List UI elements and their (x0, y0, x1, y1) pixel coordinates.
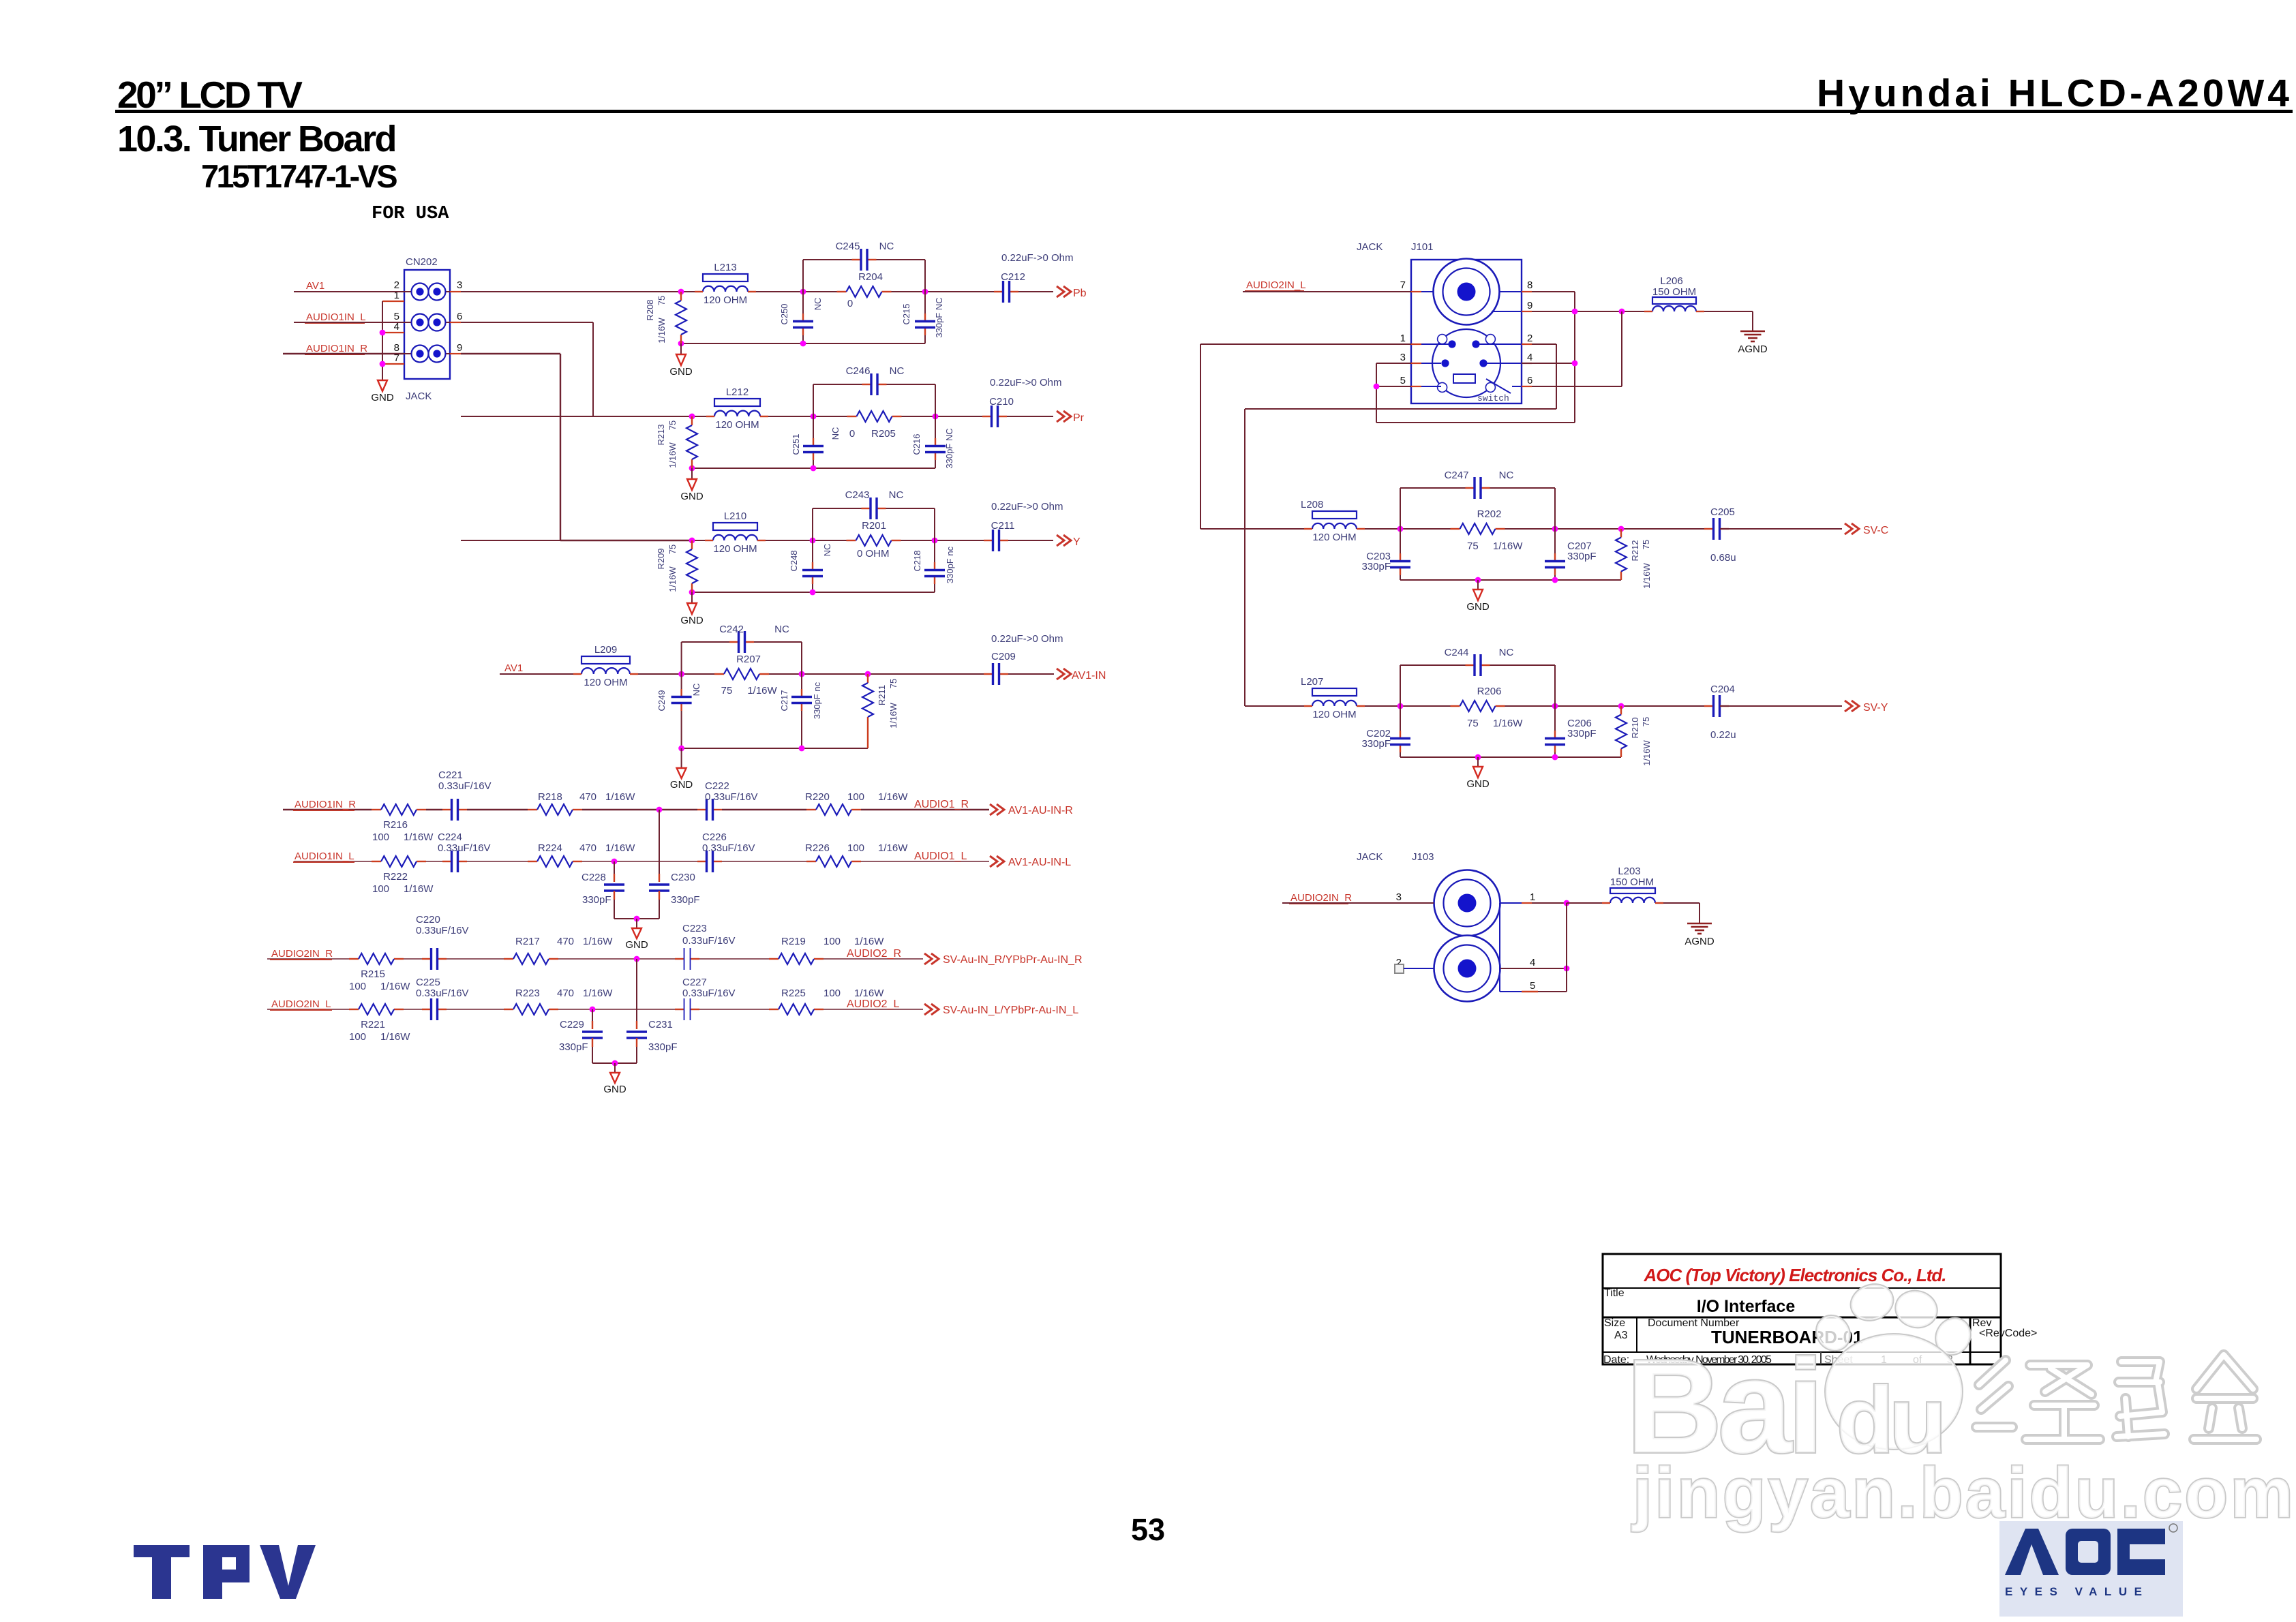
svg-text:C216: C216 (911, 433, 922, 455)
svg-text:1/16W: 1/16W (1642, 739, 1652, 765)
svg-text:NC: NC (1499, 647, 1514, 658)
svg-text:0.22uF->0 Ohm: 0.22uF->0 Ohm (991, 501, 1063, 512)
svg-text:GND: GND (371, 392, 394, 403)
svg-text:jingyan.baidu.com: jingyan.baidu.com (1631, 1454, 2296, 1533)
svg-text:9: 9 (457, 342, 462, 354)
svg-text:C225: C225 (416, 977, 440, 988)
svg-text:GND: GND (625, 939, 648, 951)
svg-text:330pF: 330pF (648, 1041, 678, 1053)
svg-text:7: 7 (1400, 279, 1406, 291)
svg-text:AUDIO1IN_L: AUDIO1IN_L (294, 851, 354, 862)
svg-text:EYES VALUE: EYES VALUE (2005, 1585, 2149, 1598)
svg-text:C248: C248 (789, 550, 799, 571)
svg-text:470: 470 (557, 936, 574, 947)
svg-text:C227: C227 (682, 977, 707, 988)
svg-text:1/16W: 1/16W (583, 988, 613, 999)
svg-text:NC: NC (1499, 470, 1514, 481)
svg-text:R223: R223 (515, 988, 540, 999)
svg-text:120 OHM: 120 OHM (704, 294, 747, 306)
svg-text:SV-Y: SV-Y (1863, 702, 1888, 714)
svg-text:100: 100 (824, 988, 841, 999)
svg-text:100: 100 (372, 883, 389, 895)
svg-text:R220: R220 (805, 791, 830, 803)
svg-text:1/16W: 1/16W (854, 988, 884, 999)
svg-text:330pF nc: 330pF nc (945, 546, 955, 583)
svg-text:AGND: AGND (1738, 343, 1768, 355)
svg-text:715T1747-1-VS: 715T1747-1-VS (201, 158, 397, 194)
svg-text:C229: C229 (560, 1019, 584, 1030)
svg-text:NC: NC (691, 684, 701, 697)
svg-text:3: 3 (1396, 891, 1402, 903)
svg-text:AGND: AGND (1685, 936, 1715, 947)
svg-text:C230: C230 (671, 872, 695, 883)
svg-text:C223: C223 (682, 923, 707, 934)
svg-text:L206: L206 (1660, 275, 1682, 287)
svg-text:120 OHM: 120 OHM (1312, 709, 1356, 720)
svg-text:75: 75 (656, 296, 667, 305)
svg-text:C209: C209 (991, 651, 1016, 662)
svg-text:R208: R208 (645, 299, 655, 320)
svg-text:NC: NC (879, 241, 894, 252)
svg-text:C224: C224 (438, 831, 462, 843)
svg-text:R204: R204 (858, 271, 883, 283)
svg-text:0.33uF/16V: 0.33uF/16V (705, 791, 758, 803)
svg-text:C211: C211 (991, 520, 1015, 532)
svg-text:100: 100 (824, 936, 841, 947)
svg-text:0.68u: 0.68u (1710, 552, 1736, 564)
svg-text:AV1-AU-IN-R: AV1-AU-IN-R (1008, 805, 1073, 816)
svg-text:470: 470 (579, 791, 596, 803)
svg-text:330pF: 330pF (559, 1041, 588, 1053)
svg-text:150 OHM: 150 OHM (1652, 286, 1696, 298)
svg-text:1/16W: 1/16W (747, 685, 777, 697)
svg-text:75: 75 (667, 545, 678, 554)
svg-text:470: 470 (579, 842, 596, 854)
svg-text:R202: R202 (1477, 508, 1502, 520)
svg-text:1/16W: 1/16W (404, 883, 434, 895)
svg-text:0.33uF/16V: 0.33uF/16V (416, 988, 469, 999)
svg-text:SV-Au-IN_R/YPbPr-Au-IN_R: SV-Au-IN_R/YPbPr-Au-IN_R (943, 954, 1083, 966)
svg-text:AUDIO2_L: AUDIO2_L (847, 998, 899, 1010)
svg-text:C231: C231 (648, 1019, 673, 1030)
svg-text:1/16W: 1/16W (1493, 540, 1523, 552)
svg-text:GND: GND (603, 1084, 626, 1095)
svg-text:75: 75 (1641, 717, 1651, 726)
svg-text:R207: R207 (736, 654, 761, 665)
svg-text:AV1-IN: AV1-IN (1072, 670, 1106, 682)
svg-text:AUDIO1IN_R: AUDIO1IN_R (294, 799, 356, 810)
svg-text:1/16W: 1/16W (380, 1031, 410, 1043)
svg-text:J101: J101 (1411, 241, 1434, 253)
svg-text:Pr: Pr (1073, 412, 1085, 424)
svg-text:C244: C244 (1445, 647, 1469, 658)
svg-text:Hyundai HLCD-A20W4: Hyundai HLCD-A20W4 (1817, 72, 2293, 115)
svg-text:330pF NC: 330pF NC (944, 428, 954, 468)
svg-text:J103: J103 (1412, 851, 1434, 863)
svg-text:1: 1 (1400, 333, 1406, 344)
svg-text:3: 3 (457, 279, 462, 291)
svg-text:NC: NC (890, 365, 905, 377)
svg-text:3: 3 (1400, 352, 1406, 363)
svg-text:330pF nc: 330pF nc (812, 682, 822, 719)
svg-text:1/16W: 1/16W (667, 566, 678, 592)
svg-text:C226: C226 (702, 831, 727, 843)
svg-text:R216: R216 (383, 819, 408, 831)
svg-text:2: 2 (1527, 333, 1532, 344)
svg-text:0.33uF/16V: 0.33uF/16V (682, 988, 736, 999)
svg-text:1/16W: 1/16W (1493, 718, 1523, 729)
svg-text:NC: NC (822, 544, 832, 557)
svg-text:120 OHM: 120 OHM (584, 677, 627, 688)
svg-text:GND: GND (1466, 778, 1490, 790)
svg-text:C247: C247 (1445, 470, 1469, 481)
svg-text:150 OHM: 150 OHM (1610, 876, 1654, 888)
svg-text:5: 5 (1530, 980, 1535, 992)
svg-text:0.22uF->0 Ohm: 0.22uF->0 Ohm (991, 633, 1063, 645)
svg-text:470: 470 (557, 988, 574, 999)
svg-text:R212: R212 (1630, 540, 1640, 561)
svg-text:switch: switch (1477, 393, 1509, 403)
svg-text:R225: R225 (781, 988, 806, 999)
svg-text:R226: R226 (805, 842, 830, 854)
svg-text:1/16W: 1/16W (854, 936, 884, 947)
svg-text:120 OHM: 120 OHM (713, 543, 757, 555)
svg-text:L203: L203 (1618, 866, 1640, 877)
svg-text:CN202: CN202 (406, 256, 438, 268)
svg-text:AUDIO2IN_R: AUDIO2IN_R (271, 948, 333, 960)
svg-text:L210: L210 (724, 510, 746, 522)
svg-text:1/16W: 1/16W (878, 791, 908, 803)
svg-text:1/16W: 1/16W (380, 981, 410, 992)
svg-text:Title: Title (1604, 1287, 1625, 1299)
svg-text:AOC (Top Victory) Electronics: AOC (Top Victory) Electronics Co., Ltd. (1644, 1265, 1946, 1285)
svg-text:1/16W: 1/16W (667, 442, 678, 468)
svg-text:AUDIO1_L: AUDIO1_L (914, 851, 967, 862)
svg-text:AUDIO1_R: AUDIO1_R (914, 799, 969, 810)
svg-text:L212: L212 (726, 386, 749, 398)
svg-text:1/16W: 1/16W (656, 317, 667, 343)
svg-text:0.33uF/16V: 0.33uF/16V (682, 935, 736, 947)
svg-text:330pF: 330pF (1361, 738, 1391, 750)
svg-text:1/16W: 1/16W (605, 842, 635, 854)
svg-text:C249: C249 (656, 690, 667, 711)
svg-text:120 OHM: 120 OHM (1312, 532, 1356, 543)
svg-text:C251: C251 (791, 433, 801, 455)
svg-text:<RevCode>: <RevCode> (1979, 1328, 2037, 1339)
svg-text:R219: R219 (781, 936, 806, 947)
svg-text:R224: R224 (538, 842, 562, 854)
svg-text:JACK: JACK (1357, 241, 1383, 253)
svg-text:75: 75 (667, 420, 678, 430)
svg-text:R218: R218 (538, 791, 562, 803)
svg-text:GND: GND (680, 491, 704, 502)
svg-text:100: 100 (372, 831, 389, 843)
svg-text:L207: L207 (1301, 676, 1323, 688)
svg-text:C242: C242 (719, 624, 744, 635)
svg-text:C210: C210 (989, 396, 1014, 408)
svg-text:0.33uF/16V: 0.33uF/16V (438, 780, 492, 792)
svg-text:SV-Au-IN_L/YPbPr-Au-IN_L: SV-Au-IN_L/YPbPr-Au-IN_L (943, 1005, 1078, 1016)
svg-text:1/16W: 1/16W (404, 831, 434, 843)
svg-text:R210: R210 (1630, 717, 1640, 738)
svg-text:C220: C220 (416, 914, 440, 925)
svg-text:1: 1 (1530, 891, 1535, 903)
svg-text:R213: R213 (656, 424, 666, 445)
svg-text:75: 75 (721, 685, 733, 697)
svg-text:1/16W: 1/16W (878, 842, 908, 854)
svg-text:5: 5 (1400, 375, 1406, 386)
svg-text:SV-C: SV-C (1863, 525, 1888, 536)
svg-text:C228: C228 (581, 872, 606, 883)
svg-text:JACK: JACK (406, 391, 432, 402)
svg-text:100: 100 (847, 791, 864, 803)
svg-text:C205: C205 (1710, 506, 1735, 518)
svg-text:0 OHM: 0 OHM (857, 548, 890, 560)
svg-text:0: 0 (849, 428, 855, 440)
svg-text:0.22uF->0 Ohm: 0.22uF->0 Ohm (990, 377, 1061, 388)
svg-text:330pF: 330pF (1567, 551, 1597, 562)
svg-text:Size: Size (1604, 1317, 1625, 1329)
svg-text:330pF: 330pF (1361, 561, 1391, 572)
svg-text:0.22uF->0 Ohm: 0.22uF->0 Ohm (1001, 252, 1073, 264)
svg-text:AV1: AV1 (306, 280, 324, 292)
svg-text:75: 75 (888, 679, 898, 688)
svg-text:8: 8 (1527, 279, 1532, 291)
svg-text:1/16W: 1/16W (583, 936, 613, 947)
svg-text:R206: R206 (1477, 686, 1502, 697)
svg-text:75: 75 (1467, 540, 1479, 552)
svg-text:0.33uF/16V: 0.33uF/16V (416, 925, 469, 936)
svg-text:R209: R209 (656, 548, 666, 569)
svg-text:1/16W: 1/16W (888, 702, 898, 728)
svg-text:Y: Y (1073, 536, 1081, 548)
svg-text:100: 100 (349, 981, 366, 992)
svg-text:0.33uF/16V: 0.33uF/16V (438, 842, 491, 854)
svg-text:330pF: 330pF (1567, 728, 1597, 739)
svg-text:1/16W: 1/16W (605, 791, 635, 803)
svg-text:L213: L213 (714, 262, 736, 273)
svg-text:R217: R217 (515, 936, 540, 947)
svg-text:JACK: JACK (1357, 851, 1383, 863)
svg-text:100: 100 (349, 1031, 366, 1043)
svg-text:0: 0 (847, 298, 853, 309)
svg-text:R215: R215 (361, 968, 385, 980)
svg-text:330pF NC: 330pF NC (934, 297, 944, 337)
svg-text:AUDIO1IN_L: AUDIO1IN_L (306, 311, 366, 323)
svg-text:330pF: 330pF (671, 894, 700, 906)
svg-text:GND: GND (669, 366, 693, 378)
svg-text:NC: NC (774, 624, 789, 635)
svg-text:R205: R205 (871, 428, 896, 440)
svg-text:1/16W: 1/16W (1642, 562, 1652, 588)
svg-text:L208: L208 (1301, 499, 1323, 510)
svg-text:53: 53 (1131, 1512, 1165, 1547)
svg-text:C204: C204 (1710, 684, 1735, 695)
svg-text:AUDIO2IN_L: AUDIO2IN_L (1246, 279, 1306, 291)
svg-text:R221: R221 (361, 1019, 385, 1030)
svg-text:R211: R211 (877, 685, 887, 705)
svg-text:I/O Interface: I/O Interface (1697, 1297, 1796, 1316)
svg-text:R222: R222 (383, 871, 408, 883)
svg-text:AUDIO2IN_L: AUDIO2IN_L (271, 998, 331, 1010)
svg-text:AUDIO2IN_R: AUDIO2IN_R (1290, 892, 1352, 904)
svg-text:GND: GND (670, 779, 693, 791)
svg-text:GND: GND (680, 615, 704, 626)
svg-text:R201: R201 (862, 520, 886, 532)
svg-text:0.22u: 0.22u (1710, 729, 1736, 741)
svg-text:C212: C212 (1001, 271, 1025, 283)
svg-text:C221: C221 (438, 769, 463, 781)
svg-text:AV1: AV1 (504, 662, 523, 674)
svg-text:C215: C215 (901, 303, 911, 324)
svg-text:C222: C222 (705, 780, 729, 792)
svg-text:6: 6 (1527, 375, 1532, 386)
svg-text:0.33uF/16V: 0.33uF/16V (702, 842, 755, 854)
svg-text:Pb: Pb (1073, 288, 1087, 299)
svg-text:FOR USA: FOR USA (372, 204, 449, 224)
svg-text:AUDIO2_R: AUDIO2_R (847, 948, 901, 960)
svg-text:10.3. Tuner Board: 10.3. Tuner Board (117, 119, 395, 159)
svg-text:C217: C217 (779, 690, 789, 711)
svg-text:4: 4 (1530, 957, 1535, 968)
svg-text:NC: NC (830, 427, 841, 440)
svg-text:330pF: 330pF (582, 894, 611, 906)
svg-text:C250: C250 (779, 303, 789, 324)
svg-text:C243: C243 (845, 489, 870, 501)
svg-text:C245: C245 (836, 241, 860, 252)
svg-text:NC: NC (813, 298, 823, 311)
svg-text:C246: C246 (846, 365, 871, 377)
svg-text:75: 75 (1641, 540, 1651, 549)
svg-text:C218: C218 (912, 550, 922, 571)
svg-text:6: 6 (457, 311, 462, 322)
svg-text:4: 4 (1527, 352, 1532, 363)
svg-text:9: 9 (1527, 300, 1532, 311)
svg-text:100: 100 (847, 842, 864, 854)
svg-text:120 OHM: 120 OHM (715, 419, 759, 431)
svg-text:20” LCD TV: 20” LCD TV (117, 74, 303, 116)
svg-text:AUDIO1IN_R: AUDIO1IN_R (306, 343, 367, 354)
svg-text:GND: GND (1466, 601, 1490, 613)
svg-text:AV1-AU-IN-L: AV1-AU-IN-L (1008, 857, 1071, 868)
svg-text:NC: NC (889, 489, 904, 501)
svg-text:75: 75 (1467, 718, 1479, 729)
svg-text:L209: L209 (594, 644, 617, 656)
